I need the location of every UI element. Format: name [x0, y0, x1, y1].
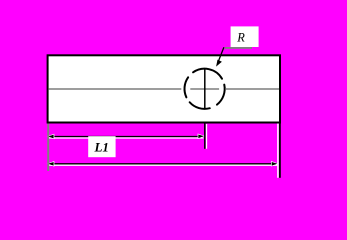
- dimension line L1 (upper): [49, 137, 204, 139]
- svg-text:L1: L1: [93, 139, 108, 154]
- leader shelf (gray): [225, 47, 252, 49]
- hole circle (dashed arcs), center 204.2,88.8 r 20.3: [185, 69, 225, 109]
- dimension line L (lower, overall): [49, 164, 278, 166]
- leader arrowhead: [216, 60, 222, 67]
- upper dim right arrowhead: [198, 135, 203, 138]
- label box L1: [88, 136, 115, 157]
- center extension line (below hole axis): [206, 124, 208, 149]
- svg-text:R: R: [236, 31, 245, 45]
- horizontal centerline (axis): [49, 88, 279, 90]
- part outline (plate): [48, 55, 280, 122]
- upper dim left arrowhead: [49, 135, 54, 138]
- vertical centerline of hole: [204, 68, 206, 109]
- lower dim right arrowhead: [272, 162, 277, 165]
- leader line: [218, 47, 224, 62]
- right extension line: [277, 124, 279, 178]
- label box R: [231, 26, 259, 47]
- lower dim left arrowhead: [49, 162, 54, 165]
- left extension line (gray): [47, 124, 49, 172]
